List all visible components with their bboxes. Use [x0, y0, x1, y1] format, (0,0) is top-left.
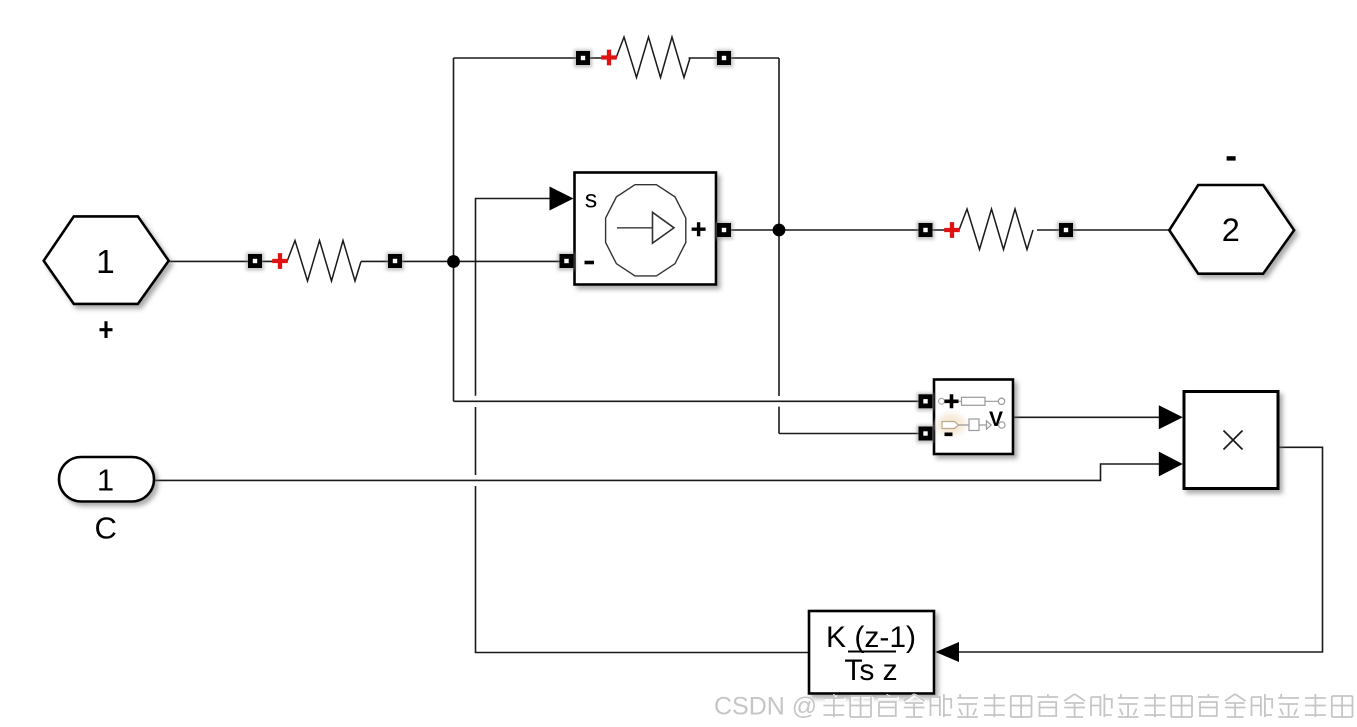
svg-text:C: C [95, 511, 117, 546]
svg-text:1: 1 [97, 463, 114, 498]
svg-text:s: s [585, 186, 598, 214]
svg-text:2: 2 [1222, 212, 1240, 248]
svg-text:CSDN @: CSDN @ [714, 693, 817, 721]
svg-text:1: 1 [96, 244, 115, 281]
svg-text:Ts z: Ts z [844, 654, 897, 687]
svg-text:K (z-1): K (z-1) [826, 621, 916, 654]
